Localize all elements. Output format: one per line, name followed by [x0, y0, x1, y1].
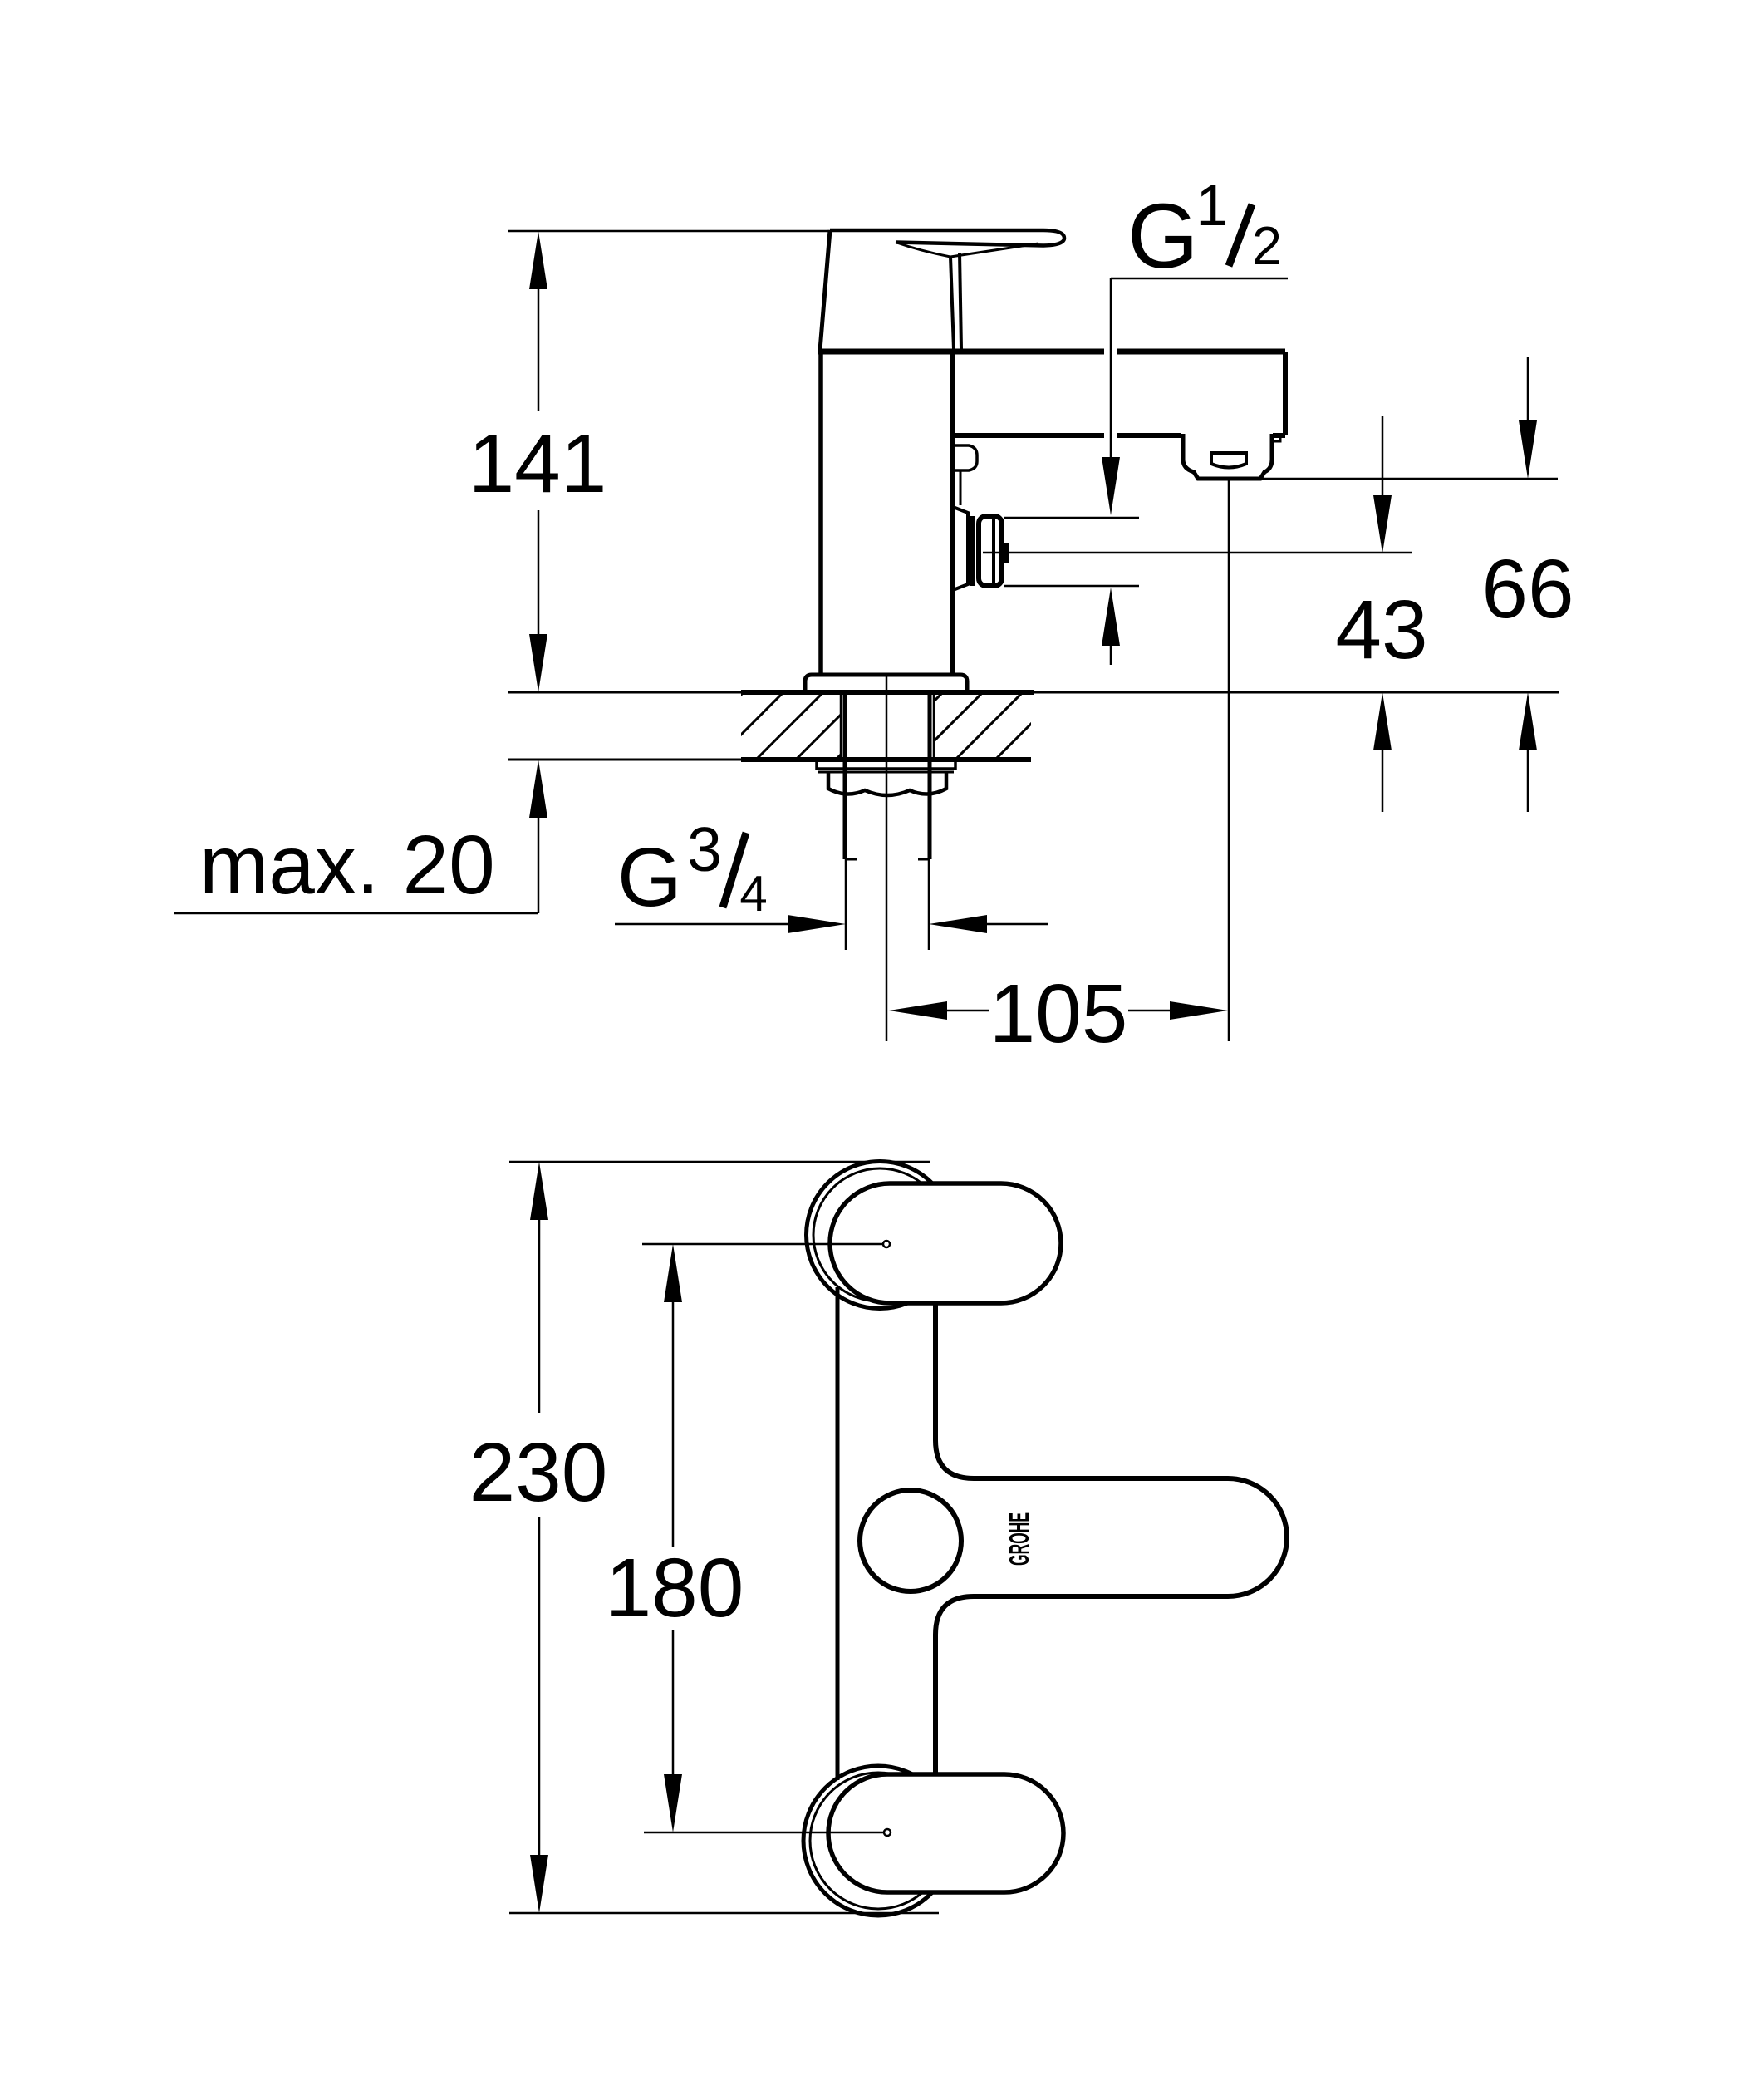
svg-text:180: 180	[606, 1542, 744, 1635]
svg-text:141: 141	[469, 417, 607, 510]
svg-text:max. 20: max. 20	[199, 819, 495, 912]
svg-text:43: 43	[1335, 583, 1427, 676]
svg-text:105: 105	[989, 967, 1128, 1060]
svg-text:G: G	[1127, 185, 1199, 288]
svg-text:1: 1	[1196, 173, 1229, 238]
svg-text:3: 3	[687, 814, 722, 884]
svg-text:4: 4	[739, 866, 767, 922]
svg-text:G: G	[617, 831, 682, 924]
svg-text:2: 2	[1252, 215, 1282, 276]
svg-text:66: 66	[1481, 543, 1574, 636]
svg-text:GROHE: GROHE	[1004, 1512, 1034, 1566]
svg-text:230: 230	[469, 1426, 608, 1519]
